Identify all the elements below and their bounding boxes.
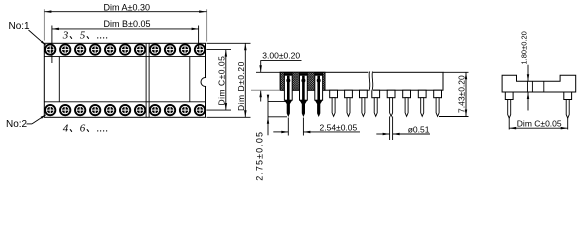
svg-text:2.54±0.05: 2.54±0.05 [320,122,358,132]
svg-text:No:2: No:2 [6,119,28,130]
svg-text:No:1: No:1 [9,21,31,32]
svg-text:7.43±0.20: 7.43±0.20 [457,75,467,113]
svg-text:Dim C±0.05: Dim C±0.05 [517,118,562,128]
svg-text:Dim D±0.20: Dim D±0.20 [236,61,246,111]
svg-text:2.75±0.05: 2.75±0.05 [255,131,265,181]
svg-text:3.00±0.20: 3.00±0.20 [262,50,300,60]
svg-text:ø0.51: ø0.51 [408,125,430,135]
svg-text:1.80±0.20: 1.80±0.20 [519,31,528,64]
svg-text:Dim C±0.05: Dim C±0.05 [217,56,227,106]
svg-text:Dim B±0.05: Dim B±0.05 [104,19,151,29]
svg-text:3、5、....: 3、5、.... [62,30,109,42]
svg-text:4、6、....: 4、6、.... [63,122,109,134]
svg-text:Dim A±0.30: Dim A±0.30 [104,2,150,12]
